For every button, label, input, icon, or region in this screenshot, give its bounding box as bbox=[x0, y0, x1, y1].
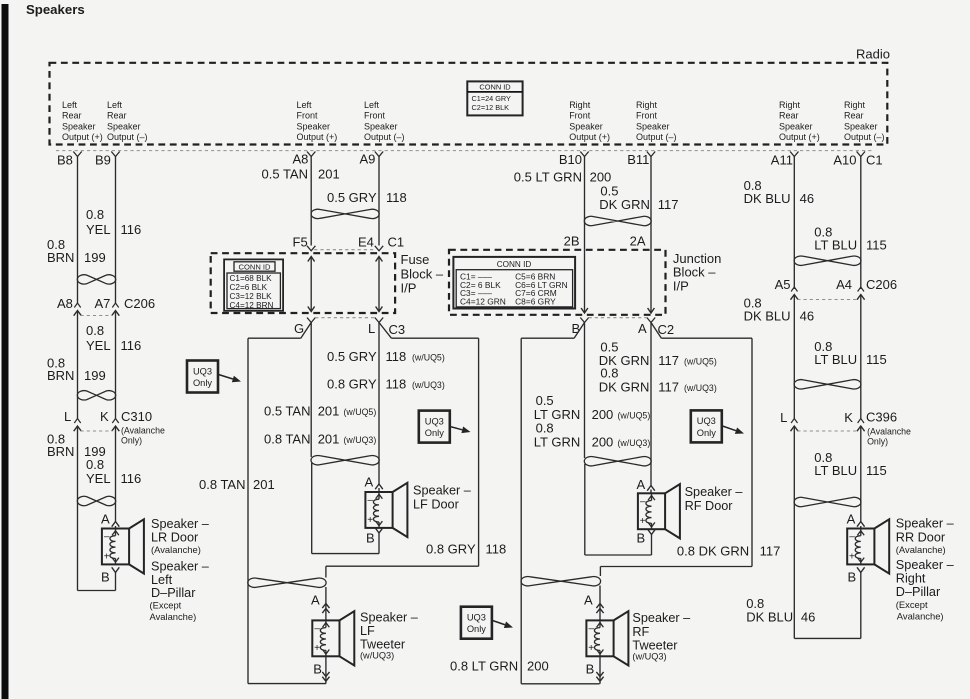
svg-text:115: 115 bbox=[866, 237, 887, 252]
svg-text:Output (+): Output (+) bbox=[569, 132, 610, 142]
svg-text:Output (–): Output (–) bbox=[844, 132, 885, 142]
svg-text:A7: A7 bbox=[95, 296, 111, 311]
svg-text:Output (+): Output (+) bbox=[62, 132, 103, 142]
svg-text:+: + bbox=[640, 516, 646, 527]
svg-text:+: + bbox=[849, 551, 855, 562]
svg-text:B9: B9 bbox=[95, 152, 111, 167]
UQ3 Only callout box 2 bbox=[419, 411, 450, 443]
svg-text:A8: A8 bbox=[57, 296, 73, 311]
svg-text:Front: Front bbox=[636, 111, 658, 121]
svg-text:D–Pillar: D–Pillar bbox=[896, 585, 941, 599]
svg-text:Speaker: Speaker bbox=[364, 121, 398, 131]
svg-text:RR Door: RR Door bbox=[896, 531, 946, 545]
svg-text:201: 201 bbox=[253, 477, 275, 492]
svg-text:C2=12 BLK: C2=12 BLK bbox=[472, 103, 510, 112]
svg-text:CONN ID: CONN ID bbox=[479, 83, 510, 92]
svg-text:Speaker: Speaker bbox=[844, 121, 878, 131]
LF UQ3 loop top edge right / right edge bbox=[391, 337, 478, 339]
svg-text:A4: A4 bbox=[836, 277, 852, 292]
speaker U4 LF Tweeter symbol bbox=[312, 620, 339, 656]
svg-text:(Except: (Except bbox=[150, 600, 182, 611]
wire B8 upper segment bbox=[77, 157, 79, 304]
svg-text:Output (+): Output (+) bbox=[297, 132, 338, 142]
svg-text:L: L bbox=[780, 410, 787, 425]
svg-text:0.8 DK GRN: 0.8 DK GRN bbox=[677, 544, 749, 559]
svg-text:C4=12 BRN: C4=12 BRN bbox=[230, 301, 274, 310]
svg-text:L: L bbox=[368, 321, 375, 336]
twisted pair symbol rear-right 1 bbox=[794, 256, 861, 265]
svg-text:0.8: 0.8 bbox=[600, 366, 618, 381]
svg-text:Speaker: Speaker bbox=[636, 121, 670, 131]
junction block CONN ID box bbox=[453, 257, 575, 309]
wire loop bottom rear-left bbox=[78, 590, 116, 592]
radio pin terminal x=651 bbox=[647, 152, 655, 157]
svg-text:201: 201 bbox=[318, 432, 340, 447]
svg-text:200: 200 bbox=[592, 435, 614, 450]
svg-text:115: 115 bbox=[866, 352, 887, 367]
wire A11 upper segment bbox=[793, 157, 795, 290]
svg-text:A: A bbox=[584, 593, 593, 608]
svg-text:C310: C310 bbox=[121, 409, 152, 424]
twisted pair symbol rear-left 1 bbox=[77, 275, 115, 284]
svg-text:2B: 2B bbox=[564, 233, 580, 248]
svg-text:115: 115 bbox=[866, 463, 887, 478]
svg-text:–: – bbox=[368, 495, 374, 506]
fuse block I/P dashed box bbox=[211, 253, 395, 313]
svg-text:Right: Right bbox=[569, 100, 591, 110]
svg-text:Left: Left bbox=[107, 100, 123, 110]
svg-text:Block –: Block – bbox=[673, 265, 716, 280]
svg-text:C206: C206 bbox=[124, 296, 155, 311]
svg-text:201: 201 bbox=[318, 404, 340, 419]
pin L diagonal to UQ3 path bbox=[379, 323, 391, 339]
svg-text:LT BLU: LT BLU bbox=[814, 237, 857, 252]
svg-text:CONN ID: CONN ID bbox=[238, 262, 271, 271]
svg-text:Speaker –: Speaker – bbox=[360, 611, 419, 625]
svg-text:B: B bbox=[366, 531, 375, 546]
wire B9 lower segment bbox=[115, 426, 117, 522]
svg-text:116: 116 bbox=[121, 222, 142, 237]
pin B diagonal bbox=[574, 323, 584, 339]
svg-text:A: A bbox=[101, 512, 110, 527]
svg-text:Right: Right bbox=[779, 100, 801, 110]
svg-text:+: + bbox=[104, 551, 110, 562]
svg-text:(w/UQ5): (w/UQ5) bbox=[684, 357, 717, 367]
wire B9 mid segment bbox=[115, 311, 117, 420]
svg-text:C4=12 GRN: C4=12 GRN bbox=[460, 297, 506, 307]
svg-text:RF: RF bbox=[632, 625, 649, 639]
svg-text:A: A bbox=[847, 512, 856, 527]
svg-text:0.5: 0.5 bbox=[536, 393, 554, 408]
radio pin terminal x=794.3 bbox=[790, 152, 798, 157]
svg-text:(Except: (Except bbox=[896, 599, 928, 610]
svg-text:(w/UQ3): (w/UQ3) bbox=[412, 380, 445, 390]
svg-text:(w/UQ5): (w/UQ5) bbox=[412, 353, 445, 363]
twisted pair symbol rear-left 2 bbox=[77, 391, 115, 400]
svg-text:B10: B10 bbox=[559, 152, 582, 167]
svg-text:118: 118 bbox=[386, 377, 407, 392]
svg-text:B: B bbox=[313, 662, 322, 677]
svg-text:Speaker: Speaker bbox=[297, 121, 331, 131]
svg-text:A8: A8 bbox=[293, 152, 309, 167]
svg-text:117: 117 bbox=[760, 544, 781, 559]
svg-text:46: 46 bbox=[800, 191, 814, 206]
svg-text:Front: Front bbox=[569, 111, 591, 121]
svg-text:BRN: BRN bbox=[47, 368, 74, 383]
radio connector interface dashed line bbox=[56, 150, 874, 152]
svg-text:116: 116 bbox=[121, 338, 142, 353]
UQ3 Only callout box 4 bbox=[691, 410, 722, 442]
svg-text:Only: Only bbox=[467, 624, 486, 634]
svg-text:A5: A5 bbox=[775, 277, 791, 292]
svg-text:YEL: YEL bbox=[86, 471, 111, 486]
svg-text:0.8 GRY: 0.8 GRY bbox=[327, 377, 377, 392]
svg-text:LF: LF bbox=[360, 624, 375, 638]
radio pin terminal x=311.2 bbox=[307, 152, 315, 157]
connector C396 symbol bbox=[791, 419, 797, 424]
svg-text:Output (+): Output (+) bbox=[779, 132, 820, 142]
radio pin terminal x=115.5 bbox=[111, 152, 119, 157]
svg-text:B: B bbox=[637, 531, 646, 546]
svg-text:L: L bbox=[64, 409, 71, 424]
svg-text:200: 200 bbox=[590, 170, 612, 185]
svg-text:LT BLU: LT BLU bbox=[814, 463, 857, 478]
svg-text:0.8 TAN: 0.8 TAN bbox=[199, 477, 245, 492]
twisted pair symbol RF door bbox=[584, 457, 651, 466]
junction pass-through wires with arrows bbox=[584, 250, 586, 312]
fuse block bottom pin terminals bbox=[307, 318, 315, 323]
svg-text:0.5 TAN: 0.5 TAN bbox=[264, 404, 310, 419]
wire A9 radio to fuse block bbox=[378, 157, 380, 246]
svg-text:+: + bbox=[588, 643, 594, 654]
svg-text:2A: 2A bbox=[630, 233, 646, 248]
svg-text:Speaker: Speaker bbox=[779, 121, 813, 131]
svg-text:F5: F5 bbox=[293, 235, 308, 250]
wire A down to door speaker bbox=[650, 323, 652, 486]
svg-text:RF Door: RF Door bbox=[685, 499, 734, 513]
svg-text:B: B bbox=[572, 321, 581, 336]
svg-text:C2=6 BLK: C2=6 BLK bbox=[230, 283, 268, 292]
svg-text:(w/UQ5): (w/UQ5) bbox=[344, 407, 377, 417]
twisted pair symbol LF door bbox=[311, 455, 379, 464]
wire A11 lower segment to loop bbox=[793, 426, 795, 638]
speaker U5 RF Door symbol bbox=[638, 493, 665, 529]
svg-text:117: 117 bbox=[658, 197, 679, 212]
wire A10 mid segment bbox=[860, 295, 862, 420]
svg-text:Avalanche): Avalanche) bbox=[897, 611, 944, 622]
radio dashed box U1 bbox=[50, 63, 888, 145]
svg-text:(w/UQ3): (w/UQ3) bbox=[632, 652, 666, 662]
svg-text:B11: B11 bbox=[627, 152, 649, 167]
svg-text:C2: C2 bbox=[658, 322, 675, 337]
svg-text:Left: Left bbox=[297, 100, 313, 110]
svg-text:I/P: I/P bbox=[673, 279, 689, 294]
svg-text:Speaker: Speaker bbox=[62, 121, 96, 131]
speaker U7 RR Door symbol bbox=[847, 529, 874, 565]
svg-text:0.5 GRY: 0.5 GRY bbox=[327, 349, 377, 364]
svg-text:YEL: YEL bbox=[86, 222, 111, 237]
svg-text:+: + bbox=[367, 515, 373, 526]
radio pin terminal x=77.5 bbox=[73, 152, 81, 157]
svg-text:0.8 TAN: 0.8 TAN bbox=[264, 432, 310, 447]
svg-text:199: 199 bbox=[84, 250, 106, 265]
svg-text:LR Door: LR Door bbox=[151, 531, 199, 545]
svg-text:BRN: BRN bbox=[47, 250, 74, 265]
wire LF inner left below twist bbox=[311, 463, 313, 554]
svg-text:–: – bbox=[849, 532, 855, 543]
svg-text:Block –: Block – bbox=[401, 267, 444, 282]
svg-text:200: 200 bbox=[592, 407, 614, 422]
svg-text:DK BLU: DK BLU bbox=[744, 309, 791, 324]
connector C206 right symbol bbox=[791, 287, 797, 292]
wire B11 radio to junction bbox=[650, 157, 652, 250]
svg-text:LT GRN: LT GRN bbox=[534, 435, 580, 450]
twisted pair symbol front-right top bbox=[584, 216, 651, 225]
svg-text:0.8: 0.8 bbox=[86, 323, 104, 338]
speaker U3 LF Door symbol bbox=[365, 492, 392, 528]
svg-text:DK BLU: DK BLU bbox=[744, 191, 791, 206]
svg-text:201: 201 bbox=[318, 167, 340, 182]
twisted pair symbol rear-right 2 bbox=[794, 380, 861, 389]
svg-text:C3: C3 bbox=[389, 322, 406, 337]
svg-text:199: 199 bbox=[84, 368, 106, 383]
svg-text:A9: A9 bbox=[360, 152, 376, 167]
svg-text:Tweeter: Tweeter bbox=[360, 638, 406, 652]
twisted pair symbol rear-left 3 bbox=[77, 496, 115, 505]
svg-text:46: 46 bbox=[800, 309, 814, 324]
svg-text:B8: B8 bbox=[57, 152, 73, 167]
svg-text:C1=24 GRY: C1=24 GRY bbox=[472, 94, 512, 103]
svg-text:Speaker –: Speaker – bbox=[685, 485, 744, 499]
svg-text:+: + bbox=[314, 643, 320, 654]
svg-text:Rear: Rear bbox=[107, 111, 127, 121]
svg-text:–: – bbox=[589, 624, 595, 635]
svg-text:K: K bbox=[100, 409, 109, 424]
wire B8 mid segment bbox=[77, 311, 79, 420]
wire L down to door speaker bbox=[378, 323, 380, 486]
svg-text:Speaker –: Speaker – bbox=[896, 517, 955, 531]
twisted pair symbol RF tweeter bbox=[521, 576, 601, 585]
svg-text:Output (–): Output (–) bbox=[107, 132, 148, 142]
svg-text:(Avalanche): (Avalanche) bbox=[896, 544, 946, 555]
svg-text:118: 118 bbox=[386, 349, 407, 364]
wire B down to door twist bbox=[584, 323, 586, 459]
svg-text:Speaker –: Speaker – bbox=[151, 517, 210, 531]
svg-text:A10: A10 bbox=[833, 152, 856, 167]
svg-text:C1: C1 bbox=[866, 152, 883, 167]
svg-text:C1=68 BLK: C1=68 BLK bbox=[230, 274, 273, 283]
svg-text:YEL: YEL bbox=[86, 338, 111, 353]
svg-text:Left: Left bbox=[62, 100, 78, 110]
wire B9 upper segment bbox=[115, 157, 117, 304]
svg-text:E4: E4 bbox=[358, 235, 374, 250]
svg-text:Right: Right bbox=[636, 100, 658, 110]
svg-text:Rear: Rear bbox=[779, 111, 799, 121]
svg-text:Rear: Rear bbox=[62, 111, 82, 121]
svg-text:0.8 LT GRN: 0.8 LT GRN bbox=[450, 659, 518, 674]
UQ3 Only callout box 3 bbox=[461, 607, 492, 639]
svg-text:UQ3: UQ3 bbox=[425, 416, 444, 426]
svg-text:LT BLU: LT BLU bbox=[814, 352, 857, 367]
svg-text:C8=6 GRY: C8=6 GRY bbox=[515, 297, 556, 307]
svg-text:Fuse: Fuse bbox=[401, 252, 430, 267]
svg-text:Avalanche): Avalanche) bbox=[150, 611, 197, 622]
svg-text:–: – bbox=[314, 624, 320, 635]
svg-text:Front: Front bbox=[364, 111, 386, 121]
fuse block pass-through arrows bbox=[310, 258, 312, 312]
svg-text:0.8: 0.8 bbox=[86, 207, 104, 222]
svg-text:118: 118 bbox=[386, 190, 407, 205]
svg-text:DK GRN: DK GRN bbox=[599, 379, 650, 394]
svg-text:0.8: 0.8 bbox=[86, 457, 104, 472]
wire A8 radio to fuse block bbox=[310, 157, 312, 246]
svg-text:Speakers: Speakers bbox=[26, 2, 85, 17]
svg-text:Speaker: Speaker bbox=[569, 121, 603, 131]
svg-text:0.5 GRY: 0.5 GRY bbox=[327, 190, 377, 205]
fuse block pin terminals bbox=[307, 246, 315, 251]
svg-text:Speaker –: Speaker – bbox=[632, 611, 691, 625]
svg-text:A: A bbox=[638, 321, 647, 336]
svg-text:Only): Only) bbox=[121, 436, 142, 446]
svg-text:B: B bbox=[101, 570, 110, 585]
svg-text:46: 46 bbox=[801, 610, 815, 625]
RF UQ3 loop top edge left / left edge / bottom bbox=[521, 337, 574, 339]
svg-text:200: 200 bbox=[527, 659, 549, 674]
connector C310 symbol bbox=[74, 419, 80, 424]
svg-text:A: A bbox=[311, 593, 320, 608]
svg-text:Only: Only bbox=[425, 428, 444, 438]
wire RF inner left below twist bbox=[584, 464, 586, 555]
svg-text:LF Door: LF Door bbox=[413, 498, 460, 512]
svg-text:G: G bbox=[294, 321, 304, 336]
svg-text:(Avalanche): (Avalanche) bbox=[151, 544, 201, 555]
svg-text:Only: Only bbox=[193, 378, 212, 388]
wire loop bottom rear-right bbox=[794, 637, 861, 639]
wire B10 radio to junction bbox=[584, 157, 586, 250]
junction block I/P dashed box bbox=[449, 250, 666, 315]
radio pin terminal x=584.5 bbox=[580, 152, 588, 157]
svg-text:A11: A11 bbox=[771, 152, 793, 167]
svg-text:D–Pillar: D–Pillar bbox=[151, 586, 196, 600]
svg-text:Rear: Rear bbox=[844, 111, 864, 121]
svg-text:B: B bbox=[586, 662, 595, 677]
svg-text:DK GRN: DK GRN bbox=[599, 197, 650, 212]
svg-text:(w/UQ3): (w/UQ3) bbox=[618, 438, 651, 448]
radio CONN ID box bbox=[467, 81, 522, 115]
svg-text:Right: Right bbox=[896, 572, 926, 586]
wire A10 lower segment bbox=[860, 426, 862, 522]
twisted pair symbol LF tweeter bbox=[248, 578, 326, 587]
svg-text:0.5 TAN: 0.5 TAN bbox=[262, 167, 308, 182]
svg-text:Speaker: Speaker bbox=[107, 121, 141, 131]
svg-text:C206: C206 bbox=[866, 277, 897, 292]
svg-text:Right: Right bbox=[844, 100, 866, 110]
svg-text:Speaker –: Speaker – bbox=[151, 560, 210, 574]
UQ3 Only callout box 1 bbox=[187, 361, 218, 393]
svg-text:I/P: I/P bbox=[401, 281, 417, 296]
speaker U6 RF Tweeter symbol bbox=[586, 620, 613, 656]
twisted pair symbol front-left top bbox=[311, 209, 379, 218]
svg-text:C1: C1 bbox=[388, 235, 405, 250]
svg-text:BRN: BRN bbox=[47, 444, 74, 459]
svg-text:UQ3: UQ3 bbox=[467, 613, 486, 623]
svg-text:A: A bbox=[365, 475, 374, 490]
svg-text:DK BLU: DK BLU bbox=[746, 610, 793, 625]
svg-text:0.5 LT GRN: 0.5 LT GRN bbox=[514, 170, 582, 185]
svg-text:(Avalanche: (Avalanche bbox=[867, 427, 911, 437]
svg-text:(w/UQ3): (w/UQ3) bbox=[344, 435, 377, 445]
RF UQ3 loop top edge right / right edge bbox=[661, 337, 752, 339]
LF UQ3 loop top edge left / left edge / bottom bbox=[248, 337, 301, 339]
svg-text:UQ3: UQ3 bbox=[697, 416, 716, 426]
twisted pair symbol rear-right 3 bbox=[794, 497, 861, 506]
svg-text:0.8: 0.8 bbox=[536, 421, 554, 436]
svg-text:117: 117 bbox=[658, 379, 679, 394]
wire A10 upper segment bbox=[860, 157, 862, 290]
speaker U2 LR Door symbol bbox=[102, 529, 129, 565]
svg-text:Speaker –: Speaker – bbox=[413, 484, 472, 498]
svg-text:–: – bbox=[640, 497, 646, 508]
svg-text:Output (–): Output (–) bbox=[364, 132, 405, 142]
connector C206 left symbol bbox=[74, 303, 80, 308]
svg-text:(w/UQ3): (w/UQ3) bbox=[684, 383, 717, 393]
svg-text:C396: C396 bbox=[866, 410, 897, 425]
pin A diagonal bbox=[651, 323, 661, 339]
svg-text:Output (–): Output (–) bbox=[636, 132, 677, 142]
svg-text:117: 117 bbox=[658, 353, 679, 368]
svg-text:K: K bbox=[844, 410, 853, 425]
svg-text:Only): Only) bbox=[867, 437, 888, 447]
svg-text:Speaker –: Speaker – bbox=[896, 558, 955, 572]
svg-text:B: B bbox=[848, 570, 857, 585]
radio pin terminal x=860.8 bbox=[857, 152, 865, 157]
fuse block CONN ID box bbox=[224, 259, 283, 310]
svg-text:116: 116 bbox=[121, 471, 142, 486]
svg-text:118: 118 bbox=[486, 542, 507, 557]
svg-text:0.8 GRY: 0.8 GRY bbox=[426, 542, 476, 557]
wire A11 mid segment bbox=[793, 295, 795, 420]
radio pin terminal x=379 bbox=[375, 152, 383, 157]
svg-text:UQ3: UQ3 bbox=[193, 366, 212, 376]
svg-text:(w/UQ5): (w/UQ5) bbox=[618, 411, 651, 421]
wire B8 lower segment to loop bbox=[77, 426, 79, 591]
svg-text:(Avalanche: (Avalanche bbox=[121, 426, 165, 436]
svg-text:Left: Left bbox=[151, 573, 173, 587]
svg-text:C3=12 BLK: C3=12 BLK bbox=[230, 292, 273, 301]
svg-text:CONN ID: CONN ID bbox=[497, 260, 532, 269]
pin G diagonal to UQ3 path bbox=[301, 323, 311, 339]
svg-text:Front: Front bbox=[297, 111, 319, 121]
svg-text:Tweeter: Tweeter bbox=[632, 639, 678, 653]
svg-text:A: A bbox=[637, 477, 646, 492]
svg-text:Left: Left bbox=[364, 100, 380, 110]
wire G down to door twist bbox=[310, 323, 312, 458]
svg-text:Radio: Radio bbox=[856, 47, 890, 62]
svg-text:(w/UQ3): (w/UQ3) bbox=[360, 651, 394, 661]
svg-text:Only: Only bbox=[697, 428, 716, 438]
svg-text:–: – bbox=[104, 532, 110, 543]
